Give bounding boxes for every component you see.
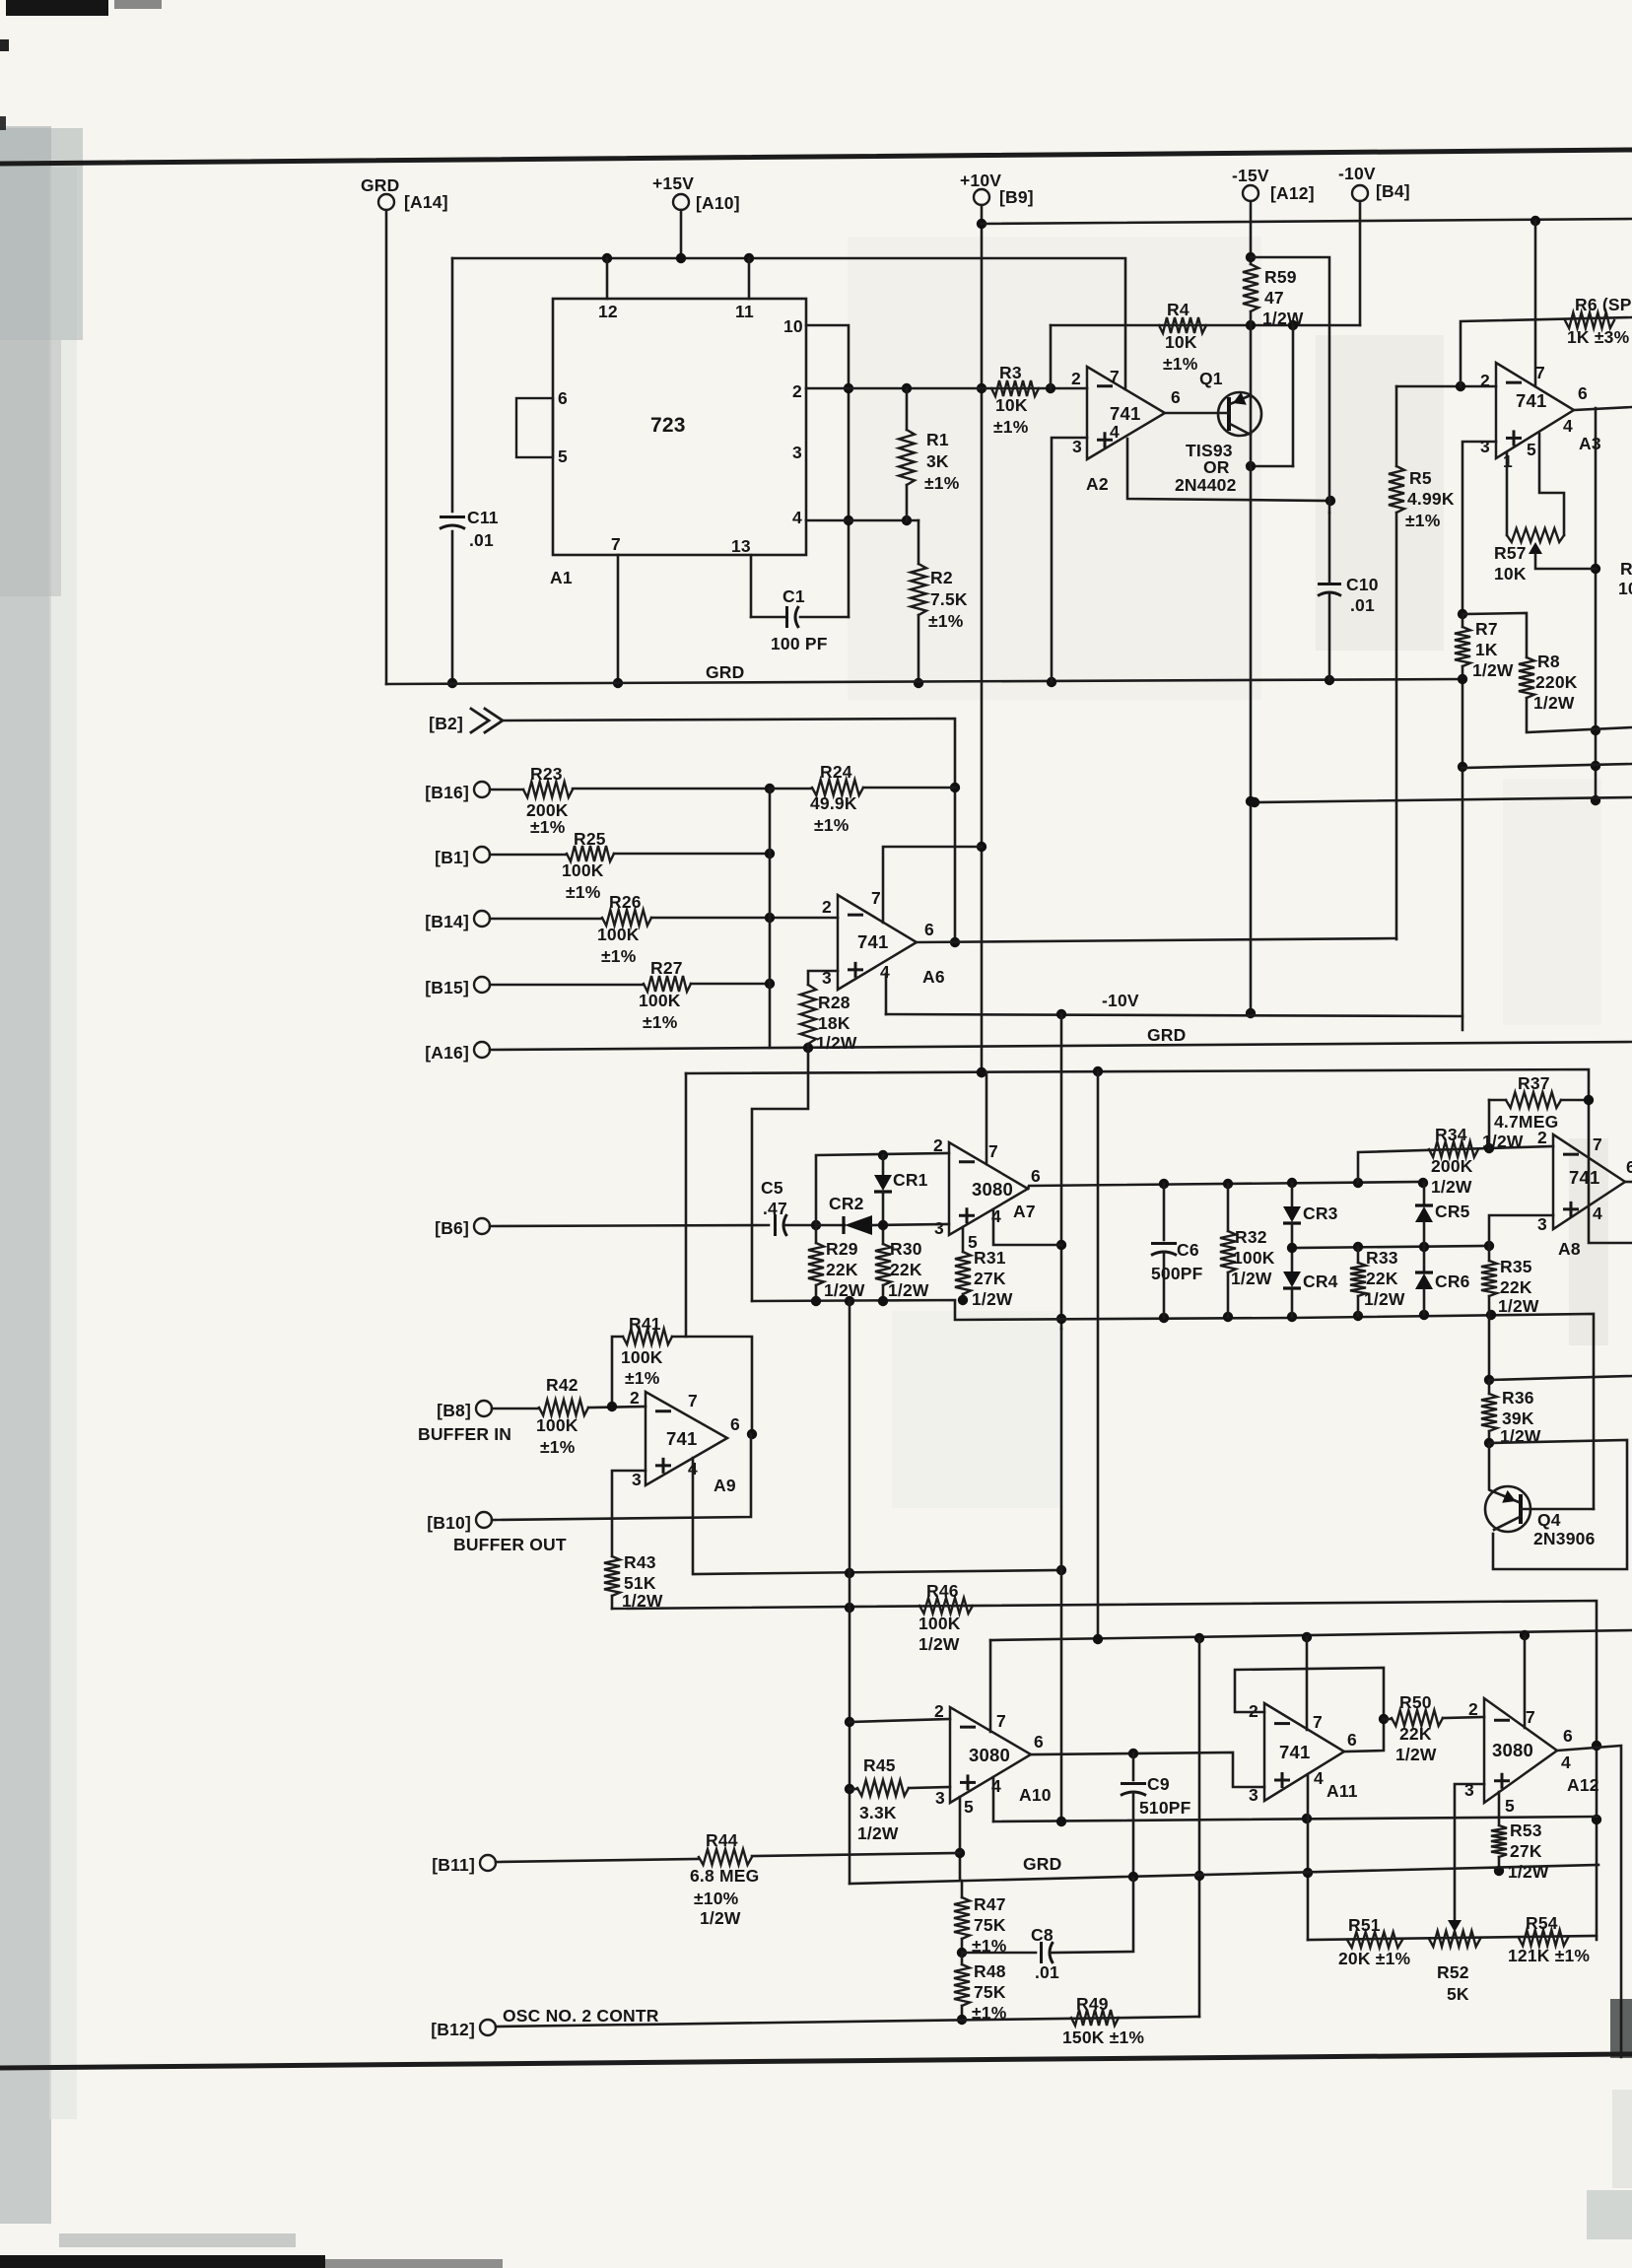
connector B15 label [425, 978, 469, 997]
connector B11 label [432, 1855, 475, 1875]
connector A12n [1243, 185, 1258, 201]
svg-text:R28: R28 [818, 993, 850, 1012]
junction [1246, 320, 1298, 471]
wire B9 vertical rail [981, 205, 984, 1072]
diode CR5 [1415, 1183, 1433, 1247]
junction [845, 1717, 854, 1794]
svg-text:±1%: ±1% [530, 817, 566, 837]
wire A3 pin2 node [1396, 385, 1496, 388]
svg-text:R7: R7 [1475, 619, 1498, 639]
resistor R54 [1519, 1930, 1568, 1946]
label CR6 [1435, 1271, 1470, 1291]
svg-text:±1%: ±1% [643, 1012, 678, 1032]
svg-text:CR6: CR6 [1435, 1271, 1470, 1291]
wire R59 branch to C10 [1251, 257, 1329, 513]
svg-text:4.7MEG: 4.7MEG [1494, 1112, 1558, 1132]
resistor R26 [490, 910, 838, 926]
resistor R29 [808, 1225, 824, 1301]
resistor R5 [1389, 386, 1404, 939]
label R28 [816, 993, 857, 1053]
wire B4 drop to R4 line [1359, 201, 1362, 325]
capacitor C5 [776, 1214, 817, 1236]
svg-text:4: 4 [1314, 1768, 1324, 1788]
svg-text:22K: 22K [1399, 1724, 1432, 1744]
label CR4 [1303, 1271, 1338, 1291]
svg-text:±1%: ±1% [1405, 511, 1441, 530]
connector B9 [974, 189, 989, 205]
wire R35 to R36 [1488, 1315, 1491, 1380]
junction [950, 783, 960, 947]
svg-text:7: 7 [1593, 1134, 1602, 1154]
svg-text:51K: 51K [624, 1573, 656, 1593]
label C9 [1139, 1774, 1191, 1818]
svg-text:[B6]: [B6] [435, 1218, 469, 1238]
svg-text:2: 2 [1071, 369, 1081, 388]
label CR2 [829, 1194, 864, 1213]
connector B6 [474, 1218, 490, 1234]
connector A16 [474, 1042, 490, 1058]
wire -10V drop lower [1060, 1329, 1063, 1821]
svg-text:2: 2 [822, 897, 832, 917]
svg-text:±1%: ±1% [601, 946, 637, 966]
svg-text:7: 7 [988, 1141, 998, 1161]
wire A3 output [1574, 407, 1632, 410]
svg-text:10K: 10K [995, 395, 1028, 415]
wire rail y1465 [1489, 1440, 1627, 1569]
wire -15V rail upper [1250, 201, 1253, 264]
junction [1159, 1310, 1496, 1323]
node B2 chevrons [471, 709, 503, 732]
wire Q1 collector [1230, 424, 1251, 435]
label R45 [857, 1755, 899, 1843]
wire A14 to ground bus [385, 210, 388, 684]
junction [1584, 1095, 1594, 1105]
svg-text:A2: A2 [1086, 474, 1109, 494]
label R54 [1508, 1913, 1590, 1965]
svg-text:C10: C10 [1346, 575, 1379, 594]
resistor R48 [954, 1953, 970, 2020]
svg-text:R33: R33 [1366, 1248, 1398, 1268]
op-amp A8 [1537, 1128, 1632, 1234]
wire 723 pin2 line [806, 387, 1087, 390]
svg-text:100K: 100K [1233, 1248, 1275, 1268]
junction [1093, 1630, 1530, 1644]
wire R4 feedback line [1051, 324, 1360, 327]
svg-text:R34: R34 [1435, 1125, 1467, 1144]
svg-text:2: 2 [630, 1388, 640, 1408]
junction [811, 1220, 821, 1230]
svg-text:3: 3 [1537, 1214, 1547, 1234]
svg-text:18K: 18K [818, 1013, 850, 1033]
svg-text:±1%: ±1% [924, 473, 960, 493]
wire +10V distribution [982, 219, 1632, 224]
wire A9 pin3 link [612, 1471, 646, 1556]
label Q4 [1533, 1510, 1596, 1548]
svg-text:3: 3 [1480, 437, 1490, 456]
svg-text:A11: A11 [1326, 1781, 1358, 1801]
svg-text:[B4]: [B4] [1376, 181, 1410, 201]
label R7 [1472, 619, 1514, 680]
connector A14 [378, 194, 394, 210]
junction [1194, 1871, 1204, 1881]
junction [1287, 1241, 1494, 1253]
label R46 [918, 1581, 961, 1654]
label R50 [1395, 1692, 1437, 1764]
label R59 [1262, 267, 1304, 328]
svg-text:CR1: CR1 [893, 1170, 928, 1190]
label Q1 type [1175, 441, 1237, 495]
op-amp A2 [1071, 367, 1181, 459]
node +15V [A10] label [652, 173, 740, 213]
wire Q4 collector [1494, 1517, 1520, 1530]
wire A3 pin5 stub [1539, 434, 1564, 535]
svg-text:500PF: 500PF [1151, 1264, 1203, 1283]
svg-text:6: 6 [1171, 387, 1181, 407]
scan artifact: faint ghost patches [848, 237, 1608, 1508]
svg-text:1/2W: 1/2W [816, 1033, 857, 1053]
connector B12 [480, 2020, 496, 2035]
svg-text:GRD: GRD [706, 662, 745, 682]
wire Q1 base [1165, 412, 1229, 415]
wire Q4 emitter [1489, 1443, 1519, 1503]
svg-text:5: 5 [1527, 440, 1536, 459]
wire Q1 node vertical [1292, 325, 1295, 466]
svg-text:7: 7 [871, 888, 881, 908]
resistor R49 [1071, 2010, 1119, 2026]
label R4 [1163, 300, 1198, 374]
svg-text:6: 6 [1578, 383, 1588, 403]
junction [447, 678, 457, 688]
wire A7 output [1028, 1182, 1423, 1189]
junction [878, 1220, 888, 1230]
wire A11 feedback [1235, 1668, 1384, 1752]
svg-text:75K: 75K [974, 1915, 1006, 1935]
svg-text:5: 5 [558, 447, 568, 466]
svg-text:.01: .01 [469, 530, 494, 550]
svg-text:A8: A8 [1558, 1239, 1581, 1259]
connector A10 [673, 194, 689, 210]
label R30 [888, 1239, 929, 1300]
svg-text:10: 10 [1618, 579, 1632, 598]
junction [1128, 1749, 1138, 1758]
connector B14 [474, 911, 490, 927]
svg-text:C8: C8 [1031, 1925, 1054, 1945]
connector B2 label [429, 714, 463, 733]
svg-text:22K: 22K [1366, 1269, 1398, 1288]
svg-text:A7: A7 [1013, 1202, 1036, 1221]
wire A9 pin4 link [693, 1458, 1061, 1574]
svg-text:200K: 200K [1431, 1156, 1473, 1176]
svg-text:R36: R36 [1502, 1388, 1534, 1408]
wire A2 pin2 up link [1050, 325, 1053, 388]
svg-text:BUFFER OUT: BUFFER OUT [453, 1535, 567, 1554]
wire 723 pin11 stub [748, 258, 751, 299]
connector B6 label [435, 1218, 469, 1238]
svg-text:1/2W: 1/2W [857, 1823, 899, 1843]
diode CR2 [816, 1215, 949, 1235]
wire rail y1400 [1489, 1376, 1632, 1380]
resistor R4 [1159, 317, 1206, 333]
label R23 [526, 764, 569, 837]
node -15V [A12] label [1232, 166, 1315, 203]
connector B8 [476, 1401, 492, 1416]
svg-text:R37: R37 [1518, 1073, 1550, 1093]
wire summing bus [769, 789, 772, 1048]
svg-text:6: 6 [730, 1414, 740, 1434]
wire mid drop to B12 [1198, 1638, 1201, 2017]
junction [1456, 381, 1465, 391]
junction [765, 913, 775, 923]
svg-text:723: 723 [650, 414, 686, 437]
svg-text:R26: R26 [609, 892, 642, 912]
label R43 [622, 1552, 663, 1611]
wire A12 pin5 link [1498, 1792, 1501, 1825]
label R2 [928, 568, 968, 631]
wire R57 wiper [1529, 542, 1596, 569]
connector B16 [474, 782, 490, 797]
svg-text:A10: A10 [1019, 1785, 1052, 1805]
svg-text:47: 47 [1264, 288, 1284, 308]
wire R34 line [1358, 1146, 1553, 1183]
junction [845, 1603, 1601, 1824]
svg-text:GRD: GRD [1147, 1025, 1187, 1045]
wire R8 bottom [1527, 698, 1632, 732]
svg-text:6: 6 [1031, 1166, 1041, 1186]
svg-text:100K: 100K [562, 860, 604, 880]
wire R6 branch [1461, 317, 1632, 386]
junction [1458, 674, 1467, 772]
svg-text:R44: R44 [706, 1830, 738, 1850]
label R24 [810, 762, 857, 835]
wire R7-R8 top link [1462, 613, 1527, 657]
node +10V [B9] label [960, 171, 1034, 207]
wire A10 pin7 stub [989, 1640, 992, 1732]
resistor R47 [954, 1881, 970, 1953]
svg-text:R50: R50 [1399, 1692, 1432, 1712]
label Q1 [1199, 369, 1223, 388]
svg-text:3: 3 [935, 1788, 945, 1808]
svg-text:22K: 22K [1500, 1277, 1532, 1297]
junction [1326, 496, 1335, 506]
label R52 [1437, 1962, 1469, 2004]
svg-text:10: 10 [783, 316, 803, 336]
op-amp A3 [1480, 363, 1588, 471]
label R26 [597, 892, 642, 966]
junction [1056, 1240, 1066, 1324]
svg-text:[B12]: [B12] [431, 2020, 475, 2039]
svg-text:R45: R45 [863, 1755, 896, 1775]
junction [1484, 1375, 1494, 1385]
potentiometer R57 [1507, 528, 1564, 542]
wire -15V rail lower [1250, 311, 1253, 1013]
connector B14 label [425, 912, 469, 931]
diode CR1 [874, 1155, 892, 1244]
svg-text:2: 2 [934, 1701, 944, 1721]
svg-text:1/2W: 1/2W [1508, 1862, 1549, 1882]
wire A10 pin2 line [850, 1719, 950, 1722]
scan artifact: top-left black blob [0, 0, 162, 130]
svg-text:7: 7 [1110, 367, 1120, 386]
wire Q1 emitter [1230, 392, 1251, 405]
svg-text:7: 7 [611, 534, 621, 554]
wire Q4 base [1521, 1508, 1594, 1511]
resistor R41 loop [612, 1329, 752, 1434]
svg-text:[B1]: [B1] [435, 848, 469, 867]
svg-text:741: 741 [1110, 403, 1140, 424]
svg-text:R25: R25 [574, 829, 606, 849]
label A6 [922, 967, 945, 987]
junction [607, 1402, 617, 1411]
junction [1246, 796, 1256, 1018]
svg-text:R47: R47 [974, 1894, 1006, 1914]
transistor Q4 [1485, 1486, 1530, 1532]
resistor R50 [1384, 1710, 1484, 1726]
wire A8 output [1625, 1181, 1632, 1184]
resistor R28 [800, 985, 816, 1048]
svg-text:100K: 100K [918, 1614, 961, 1633]
svg-text:R3: R3 [999, 363, 1022, 382]
svg-text:[B14]: [B14] [425, 912, 469, 931]
svg-text:CR5: CR5 [1435, 1202, 1470, 1221]
svg-text:1K ±3%: 1K ±3% [1567, 327, 1630, 347]
svg-text:R48: R48 [974, 1961, 1006, 1981]
svg-text:C5: C5 [761, 1178, 783, 1198]
svg-text:4: 4 [1563, 416, 1573, 436]
svg-text:1K: 1K [1475, 640, 1498, 659]
potentiometer R52 [1429, 1931, 1480, 1947]
wire A8 pin3 link [1489, 1215, 1553, 1246]
resistor R42 [492, 1400, 646, 1415]
wire A10 pin4 stub [992, 1777, 995, 1821]
svg-text:[A10]: [A10] [696, 193, 740, 213]
svg-text:22K: 22K [826, 1260, 858, 1279]
svg-text:741: 741 [666, 1428, 697, 1449]
label CR3 [1303, 1203, 1338, 1223]
svg-text:11: 11 [735, 302, 754, 321]
svg-text:R35: R35 [1500, 1257, 1532, 1276]
label R6 [1567, 295, 1632, 347]
junction [845, 1565, 1066, 1578]
wire A7 pin2 line [816, 1153, 949, 1225]
svg-text:±1%: ±1% [566, 882, 601, 902]
label R36 [1500, 1388, 1541, 1446]
svg-text:CR4: CR4 [1303, 1271, 1338, 1291]
wire A2 pin4 link [1127, 439, 1330, 501]
node GRD [A14] label [361, 175, 448, 212]
wire A6 pin3 link [808, 971, 838, 985]
svg-text:R41: R41 [629, 1314, 661, 1334]
svg-text:R54: R54 [1526, 1913, 1558, 1933]
wire A11 pin7 stub [1306, 1637, 1309, 1730]
svg-text:[A14]: [A14] [404, 192, 448, 212]
wire A6 pin4 stub [885, 974, 888, 1014]
resistor R7 [1455, 614, 1470, 1030]
label C11 [467, 508, 499, 550]
resistor R30 [875, 1244, 891, 1301]
wire A7 bottom rail [752, 1300, 1594, 1509]
svg-text:4.99K: 4.99K [1407, 489, 1455, 509]
svg-text:R4: R4 [1167, 300, 1190, 319]
junction [765, 849, 775, 859]
label R41 [621, 1314, 663, 1388]
svg-text:6: 6 [558, 388, 568, 408]
connector B10 [476, 1512, 492, 1528]
svg-text:C11: C11 [467, 508, 499, 527]
svg-text:1/2W: 1/2W [1498, 1296, 1539, 1316]
junction [1484, 1438, 1494, 1448]
junction [957, 2015, 967, 2025]
svg-text:741: 741 [857, 931, 888, 952]
svg-text:BUFFER IN: BUFFER IN [418, 1424, 511, 1444]
diode CR3 [1283, 1183, 1301, 1248]
svg-text:C9: C9 [1147, 1774, 1170, 1794]
resistor R23 [490, 782, 770, 797]
svg-text:[B16]: [B16] [425, 783, 469, 802]
label A11 [1326, 1781, 1358, 1801]
scan artifact: bottom-right smudges [1587, 1999, 1632, 2239]
svg-text:20K ±1%: 20K ±1% [1338, 1949, 1411, 1968]
resistor R27 [490, 976, 770, 992]
junction [803, 1043, 813, 1053]
svg-text:3: 3 [934, 1218, 944, 1238]
svg-text:2: 2 [1468, 1699, 1478, 1719]
label R57 [1494, 543, 1527, 584]
resistor R6 [1565, 312, 1614, 328]
svg-text:100K: 100K [536, 1415, 578, 1435]
junction [1494, 1866, 1504, 1876]
label R48 [972, 1961, 1007, 2023]
label R35 [1498, 1257, 1539, 1316]
svg-text:1/2W: 1/2W [1482, 1132, 1524, 1151]
svg-text:R5: R5 [1409, 468, 1432, 488]
resistor R36 [1481, 1380, 1497, 1443]
wire diode mid rail [1292, 1246, 1489, 1248]
svg-text:R59: R59 [1264, 267, 1297, 287]
resistor R44 [496, 1849, 960, 1865]
resistor R3 [991, 380, 1039, 396]
label R29 [824, 1239, 865, 1300]
svg-text:3: 3 [632, 1470, 642, 1489]
wire A3 pin3 drop [1462, 442, 1496, 614]
svg-text:R32: R32 [1235, 1227, 1267, 1247]
svg-text:OSC NO. 2 CONTR: OSC NO. 2 CONTR [503, 2006, 659, 2026]
svg-text:±1%: ±1% [993, 417, 1029, 437]
wire -10V bus [886, 1014, 1462, 1016]
wire A10 pin5 link [959, 1797, 962, 1880]
svg-text:Q1: Q1 [1199, 369, 1223, 388]
wire GRD bus [386, 679, 1462, 684]
junction [844, 383, 853, 525]
label R8 [1533, 652, 1578, 713]
svg-text:5: 5 [1505, 1796, 1515, 1816]
label A10 [1019, 1785, 1052, 1805]
svg-text:1/2W: 1/2W [1364, 1289, 1405, 1309]
svg-text:[B15]: [B15] [425, 978, 469, 997]
label R37 [1482, 1073, 1558, 1151]
svg-text:1/2W: 1/2W [1231, 1269, 1272, 1288]
junction [977, 219, 986, 1077]
label R1 [924, 430, 960, 493]
wire B6 line [490, 1225, 769, 1226]
svg-text:7: 7 [1535, 363, 1545, 382]
svg-text:3.3K: 3.3K [859, 1803, 897, 1822]
wire bus y814 [1255, 797, 1632, 802]
label R34 [1431, 1125, 1473, 1197]
svg-text:±1%: ±1% [540, 1437, 576, 1457]
svg-text:R6 (SPE: R6 (SPE [1575, 295, 1632, 314]
svg-text:.01: .01 [1350, 595, 1375, 615]
svg-text:741: 741 [1279, 1742, 1310, 1762]
